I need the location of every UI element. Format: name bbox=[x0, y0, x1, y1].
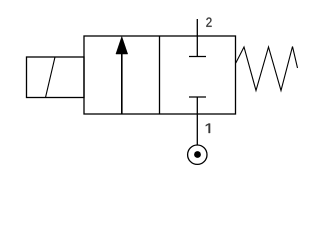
solenoid actuator box bbox=[27, 57, 85, 98]
port 1 stub wire bbox=[196, 97, 198, 145]
blocked port symbol bottom (T-bar) bbox=[189, 96, 206, 98]
flow path arrowhead bbox=[116, 37, 128, 55]
port label 2 bbox=[206, 18, 211, 27]
valve position divider bbox=[159, 36, 161, 114]
blocked port symbol top (T-bar) bbox=[189, 56, 206, 58]
solenoid diagonal stroke bbox=[46, 57, 56, 98]
pressure source port 1 circle bbox=[188, 145, 207, 164]
return spring bbox=[236, 47, 298, 91]
pressure source port 1 dot bbox=[194, 151, 201, 158]
port label 1 bbox=[206, 124, 210, 134]
port 2 stub wire bbox=[196, 19, 198, 57]
flow path arrow stem bbox=[121, 50, 123, 114]
valve body outline bbox=[84, 36, 236, 114]
